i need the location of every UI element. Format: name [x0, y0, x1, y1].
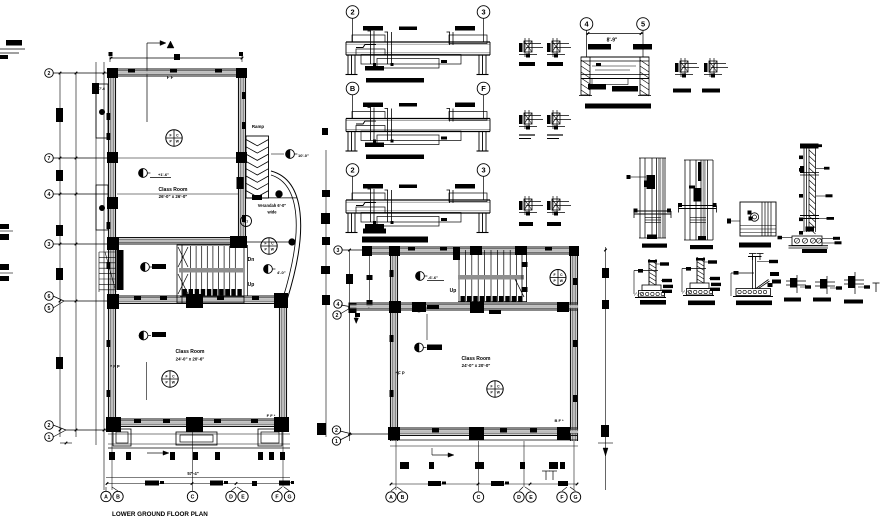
stirrup pair 1: [370, 31, 372, 64]
rebar bent bar in band: [356, 121, 376, 124]
edge detail mid-left1: [0, 224, 9, 229]
bottom bubbles center A B: [386, 492, 396, 502]
svg-text:2: 2: [350, 8, 354, 17]
column left-plan B7: [236, 152, 247, 163]
dim line v3: [95, 62, 97, 445]
svg-text:G: G: [573, 495, 577, 501]
dim text bars left: [56, 108, 63, 122]
svg-text:* F P: * F P: [110, 364, 120, 369]
rebar label top-left: [363, 26, 383, 31]
svg-text:4: 4: [48, 192, 51, 198]
beam title bar: [366, 155, 424, 160]
stair right boundary: [247, 245, 249, 296]
column center wing-end: [349, 303, 357, 314]
dim line v1: [59, 73, 61, 437]
svg-text:B: B: [350, 84, 355, 93]
stair bottom line: [180, 296, 244, 298]
column center bot-right: [557, 427, 570, 440]
rebar lap box top-right: [449, 112, 487, 121]
fan center classroom: [487, 381, 503, 397]
svg-text:2: 2: [350, 166, 354, 175]
svg-text:7'-6: 7'-6: [99, 87, 105, 91]
leader line center room: [426, 314, 428, 340]
grid bubble 2 lower: [45, 421, 54, 430]
column detail D3 plan: [740, 202, 776, 236]
svg-text:G: G: [287, 494, 291, 500]
svg-text:C: C: [191, 494, 195, 500]
svg-text:Verandah 6'-0": Verandah 6'-0": [258, 203, 286, 208]
svg-text:4'-0": 4'-0": [277, 270, 286, 275]
stair handrail gray: [179, 268, 243, 273]
beam title bar: [366, 78, 424, 83]
center dim line v2: [369, 250, 371, 307]
stair X brace lower: [178, 274, 188, 294]
svg-text:Class Room: Class Room: [462, 356, 491, 362]
grid line 7 extension right: [271, 153, 284, 155]
column detail D1: [639, 158, 641, 238]
rebar box below3: [377, 59, 439, 69]
wall left main center plan: [390, 247, 392, 441]
grid bubble 1: [45, 433, 54, 442]
svg-text:2: 2: [48, 71, 51, 77]
grid bubble 2 center: [333, 311, 341, 319]
mini details right of 4-5: [680, 58, 682, 77]
mini detail pair3 left: [524, 196, 526, 215]
grid bubble 3 center plan: [334, 246, 342, 254]
grid bubble 6: [45, 292, 54, 301]
bottom bubbles left-plan A B: [101, 491, 111, 501]
beam 4-5 hatch left column: [581, 57, 590, 95]
rebar box below1: [356, 126, 385, 132]
svg-text:A: A: [104, 494, 108, 500]
svg-text:Class Room: Class Room: [176, 349, 205, 355]
svg-text:Ramp: Ramp: [252, 124, 265, 129]
rebar box below2: [361, 55, 461, 65]
grid line 2: [53, 72, 108, 74]
porch edge line: [108, 447, 290, 449]
stair center plan treads: [458, 250, 460, 301]
svg-text:57'-4": 57'-4": [187, 471, 198, 476]
beam bubble 3: [477, 6, 490, 19]
grid fork 2-1 center: [340, 431, 352, 434]
svg-text:3: 3: [48, 242, 51, 248]
rebar label bottom-mid: [441, 60, 447, 63]
grid fork 6-5: [53, 296, 64, 301]
black bar on verandah line: [252, 195, 262, 200]
dim slashes left: [59, 72, 62, 75]
right dim line left-plan: [325, 150, 327, 437]
beam bubble 3: [477, 164, 490, 177]
svg-text:F: F: [554, 273, 556, 277]
svg-text:F: F: [275, 494, 278, 500]
svg-text:10'-0": 10'-0": [298, 153, 309, 158]
wall ticks bottom walls: [134, 296, 141, 300]
column center bot-left: [388, 427, 400, 440]
wall grid6-5 left-plan: [108, 295, 287, 297]
ramp left-plan: [246, 136, 269, 198]
fan center stair hall: [550, 270, 566, 286]
mini detail pair1 left: [524, 38, 526, 57]
grid bubble 4 center: [334, 300, 342, 308]
rebar label bottom-mid: [441, 218, 447, 221]
stair center handrail: [458, 275, 524, 280]
beam column left: [347, 55, 349, 74]
column left-plan A7: [107, 152, 118, 163]
svg-text:F: F: [170, 133, 172, 137]
dim line v2: [75, 73, 77, 437]
svg-text:1: 1: [48, 435, 51, 441]
svg-text:6: 6: [48, 294, 51, 300]
grid line 7 through room: [117, 157, 238, 159]
porch column marks: [109, 452, 115, 460]
grid bubble 2 left plan: [45, 69, 54, 78]
beam 4-5 bubble 4: [580, 18, 593, 31]
wall right lower left-plan: [279, 300, 281, 431]
column left-plan A2b: [106, 417, 121, 432]
wall left left-plan: [108, 69, 110, 431]
level marker stair hall: [141, 263, 150, 272]
D4 title bar: [802, 249, 827, 253]
beam column right: [478, 213, 480, 232]
column left-plan B1: [236, 68, 247, 78]
beam band: [346, 118, 490, 120]
rebar box below3: [377, 135, 439, 145]
svg-text:F: F: [481, 84, 486, 93]
top dimension line: [110, 57, 243, 59]
svg-text:24'-0" x 20'-6": 24'-0" x 20'-6": [176, 357, 205, 362]
rebar lap box top-right: [449, 35, 487, 44]
svg-text:B F *: B F *: [554, 418, 564, 423]
beam 4-5 bubble 5: [637, 18, 650, 31]
stirrup pair 2: [387, 190, 389, 222]
edge detail mid-left2: [0, 264, 9, 270]
beam 4-5 label bar left: [588, 44, 611, 50]
stair nosing squares: [183, 289, 187, 296]
beam 4-5 title bar: [585, 104, 651, 109]
grid bubble 5: [45, 304, 54, 313]
svg-text:3: 3: [481, 8, 485, 17]
grid fork 2-1: [53, 425, 66, 430]
fan stair hall: [261, 238, 277, 254]
porch arrow: [147, 452, 163, 454]
column detail D2: [684, 160, 686, 240]
svg-text:C: C: [477, 495, 481, 501]
svg-text:Up: Up: [450, 288, 457, 294]
footing detail F4: [786, 280, 806, 282]
grid line 7: [53, 157, 117, 159]
svg-text:B: B: [401, 495, 405, 501]
mini detail pair3 right: [552, 196, 554, 215]
ceiling fan lower room: [139, 331, 148, 340]
stair treads: [190, 246, 192, 296]
grid bubble 4: [45, 190, 54, 199]
svg-text:5: 5: [48, 306, 51, 312]
rebar label top-right: [455, 26, 475, 31]
svg-text:+1'-6": +1'-6": [158, 172, 169, 177]
bottom bubbles D E: [226, 491, 236, 501]
column center stairleft: [453, 247, 460, 260]
beam title bar: [363, 229, 386, 234]
rebar lap box top-left: [352, 35, 385, 42]
porch planter mid: [176, 432, 217, 445]
svg-text:P7: P7: [244, 220, 248, 224]
wall right center plan: [570, 247, 572, 441]
mark near right dim top: [322, 128, 328, 135]
beam column left: [347, 213, 349, 232]
porch lines center plan: [390, 439, 578, 441]
verandah arc inner: [271, 175, 296, 298]
dim line bottom left-plan: [106, 483, 290, 485]
bottom bubble center C: [473, 492, 483, 502]
beam bubble B: [346, 82, 359, 95]
level marker center stair: [416, 272, 425, 281]
mini detail pair1 right: [552, 38, 554, 57]
grid bubble 1 center: [332, 437, 340, 445]
column center top-left-ext: [362, 246, 372, 256]
wall ticks left wall: [107, 113, 111, 120]
beam 4-5 lower bars: [588, 84, 606, 90]
svg-text:D: D: [229, 494, 233, 500]
center dim line v1: [349, 250, 351, 441]
black dot grid4 right: [276, 191, 283, 198]
svg-text:8'-9": 8'-9": [607, 38, 618, 44]
column left-plan M2b: [186, 417, 203, 432]
D4 left ticks: [799, 156, 803, 160]
center dim small marks: [355, 313, 360, 317]
rebar label bottom-left: [365, 224, 384, 229]
wall right upper left-plan: [238, 69, 240, 247]
porch marks center: [400, 462, 409, 469]
stirrup hook right: [449, 109, 451, 122]
column center bot-m1: [469, 427, 484, 440]
D4 right annotations: [816, 167, 827, 169]
grid line 3: [53, 243, 108, 245]
stair center right wall: [521, 247, 523, 302]
wall top left-plan: [108, 68, 246, 70]
beam bubble 2: [346, 6, 359, 19]
section cut line A: [146, 43, 148, 122]
mini detail pair2 left: [524, 110, 526, 129]
rebar box below2: [361, 131, 461, 141]
level marker verandah: [264, 265, 273, 274]
svg-text:E: E: [529, 495, 533, 501]
mini detail pair2 right: [552, 110, 554, 129]
porch planter right: [258, 429, 282, 446]
stair center nosings: [461, 296, 465, 302]
svg-text:24'-0" x 20'-0": 24'-0" x 20'-0": [462, 363, 491, 368]
stair center bottom line: [458, 301, 527, 303]
grid line 4 through room: [117, 193, 238, 195]
stirrup pair 2: [387, 32, 389, 64]
rebar label top-mid: [399, 103, 417, 107]
beam band: [346, 41, 490, 43]
dim line v4: [103, 62, 105, 490]
svg-text:2: 2: [335, 428, 338, 434]
circle P7: [241, 216, 252, 227]
column left-plan A6: [107, 294, 119, 309]
porch planter left: [113, 429, 131, 446]
rebar box below1: [356, 49, 385, 55]
svg-text:1: 1: [335, 439, 338, 445]
stirrup pair 1: [370, 108, 372, 141]
beam 4-5 label bar right: [633, 44, 652, 50]
svg-text:2: 2: [336, 313, 339, 319]
bottom bubbles center D E: [514, 492, 524, 502]
grid line 4: [53, 193, 108, 195]
fan upper classroom: [166, 130, 182, 146]
column center top-right: [569, 246, 579, 256]
stirrup pair 1: [370, 189, 372, 222]
verandah arc outer: [271, 171, 301, 300]
bubble stems bottom center: [395, 441, 397, 490]
svg-text:-6'-6": -6'-6": [428, 275, 438, 280]
bottom bubble C: [187, 491, 197, 501]
rebar box below2: [361, 213, 461, 223]
wall section D4 footing: [792, 236, 822, 246]
stair left-plan box: [177, 245, 244, 303]
stair center diagonal: [515, 279, 524, 297]
wall ticks top wall: [128, 69, 135, 73]
beam column right: [478, 55, 480, 74]
grid bubble 2 center lower: [332, 426, 340, 434]
column left-plan M6: [186, 294, 203, 308]
column center mid-right: [557, 302, 569, 312]
grid3 line to dot: [247, 241, 290, 243]
beam 4-5 base: [579, 95, 592, 97]
beam column left: [347, 132, 349, 151]
dim tick below bubble1: [60, 442, 72, 444]
svg-text:3: 3: [481, 166, 485, 175]
stirrup hook right: [449, 32, 451, 45]
wall bottom left-plan: [108, 418, 287, 420]
closet upper left wall: [96, 84, 108, 138]
svg-text:2: 2: [48, 423, 51, 429]
stirrup pair 2: [387, 109, 389, 141]
grid bubble 7: [45, 154, 54, 163]
svg-text:A: A: [389, 495, 393, 501]
rebar bent bar in band: [356, 203, 376, 206]
closet lower left wall: [96, 185, 108, 230]
stirrup hook right: [449, 190, 451, 203]
bottom bubbles F G: [272, 491, 282, 501]
leader line lower room: [146, 362, 148, 400]
wall bottom center plan: [390, 427, 578, 429]
right dim line center plan: [605, 247, 607, 490]
column center top-left: [389, 246, 400, 256]
svg-text:7: 7: [48, 156, 51, 162]
rebar label top-mid: [399, 27, 417, 31]
footing detail F5: [815, 281, 835, 283]
column center top-m2: [515, 246, 527, 255]
level marker right of ramp: [286, 150, 295, 159]
rebar lap box top-right: [449, 193, 487, 202]
column left-plan A4: [107, 197, 118, 209]
column center mid-m0: [412, 302, 426, 312]
svg-text:4: 4: [337, 302, 340, 308]
svg-text:3: 3: [337, 248, 340, 254]
column center top-m1: [470, 246, 482, 255]
black dot right: [289, 239, 296, 246]
dim text bars bottom: [145, 481, 159, 486]
wall ticks center plan: [408, 247, 415, 251]
column center mid-left: [389, 301, 401, 313]
door steps detail: [99, 251, 116, 253]
column left-plan B4: [237, 177, 244, 189]
beam 4-5 body: [581, 56, 649, 58]
fan lower classroom: [162, 371, 178, 387]
footing detail F3: [748, 256, 762, 258]
column left-plan B3: [230, 236, 247, 248]
svg-text:* F P: * F P: [395, 371, 405, 376]
svg-text:Up: Up: [248, 282, 255, 288]
beam 4-5 hatch right column: [640, 57, 649, 95]
svg-text:Dn: Dn: [248, 257, 255, 263]
porch band lines: [108, 433, 290, 435]
svg-text:wide: wide: [266, 210, 277, 215]
svg-text:F: F: [491, 384, 493, 388]
rebar label top-right: [455, 184, 475, 189]
svg-text:F: F: [166, 374, 168, 378]
rebar label top-right: [455, 103, 475, 108]
level marker center mid: [415, 303, 424, 312]
footing detail F2: [696, 257, 698, 283]
svg-text:F F *: F F *: [267, 413, 276, 418]
door leaf: [117, 250, 124, 290]
wall section D4 tall: [800, 144, 819, 149]
rebar label bottom-left: [365, 143, 384, 148]
grid fork 4-2 center: [341, 305, 352, 307]
rebar box below3: [377, 217, 439, 227]
svg-text:B: B: [116, 494, 120, 500]
svg-text:LOWER GROUND FLOOR PLAN: LOWER GROUND FLOOR PLAN: [112, 511, 208, 518]
footing detail F1: [648, 259, 650, 285]
svg-text:F F: F F: [167, 75, 174, 80]
level marker upper room: [139, 169, 148, 178]
wall grid3 left-plan: [117, 237, 246, 239]
grid line 4 extension right: [247, 197, 297, 199]
rebar bent bar in band: [356, 45, 376, 48]
stair X brace upper: [178, 247, 188, 267]
rebar label bottom-mid: [441, 137, 447, 140]
tee marks center bottom: [545, 471, 547, 480]
column left-plan C2b: [274, 417, 289, 432]
stair left wall: [181, 245, 183, 303]
D3 tee marks: [752, 254, 754, 261]
beam column right: [478, 132, 480, 151]
svg-text:E: E: [241, 494, 245, 500]
beam 4-5 dim: [587, 33, 644, 35]
beam bubble 2: [346, 164, 359, 177]
rebar label top-left: [363, 184, 383, 189]
svg-text:D: D: [517, 495, 521, 501]
beam bubble F: [477, 82, 490, 95]
rebar lap box top-left: [352, 112, 385, 119]
beam 4-5 inner bars: [596, 63, 601, 66]
column left-plan C6: [274, 293, 288, 308]
wall mid center plan: [350, 302, 578, 304]
rebar label top-mid: [399, 185, 417, 189]
rebar box below1: [356, 207, 385, 213]
D4 slab joints: [800, 172, 819, 174]
bubble stems bottom left-plan: [111, 431, 113, 490]
porch arrow center: [432, 454, 448, 456]
grid bubble 3: [45, 240, 54, 249]
rebar lap box top-left: [352, 193, 385, 200]
column left-plan A1: [107, 68, 118, 78]
rebar label bottom-left: [365, 66, 384, 71]
svg-text:Class Room: Class Room: [159, 187, 188, 193]
ceiling fan center room: [415, 343, 424, 352]
